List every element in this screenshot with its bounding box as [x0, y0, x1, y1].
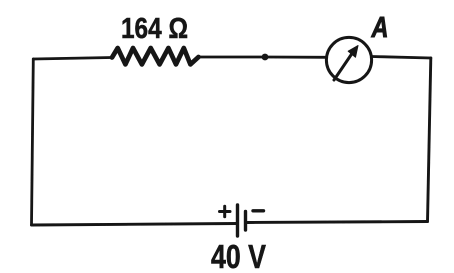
battery minus sign: [253, 209, 264, 212]
resistor R (164 ohm) zigzag: [112, 48, 199, 64]
svg-text:40 V: 40 V: [211, 238, 266, 273]
wire node to ammeter: [265, 56, 327, 59]
svg-text:A: A: [371, 12, 389, 44]
ammeter U1 circle: [326, 37, 371, 82]
node junction dot: [262, 54, 269, 61]
battery plus sign: [220, 206, 231, 216]
battery V1 positive plate (tall): [236, 205, 239, 236]
battery V1 negative plate (short): [244, 212, 247, 231]
wire bottom-left segment: [32, 224, 238, 226]
wire ammeter to top-right corner: [372, 57, 431, 59]
wire right vertical: [428, 58, 431, 222]
wire top-left segment: [33, 58, 112, 60]
ammeter needle shaft: [334, 54, 352, 81]
wire resistor to node: [199, 56, 266, 59]
svg-text:164 Ω: 164 Ω: [121, 13, 188, 45]
wire left vertical: [32, 59, 34, 225]
wire bottom-right segment: [248, 222, 428, 223]
ammeter needle arrowhead: [348, 46, 358, 58]
